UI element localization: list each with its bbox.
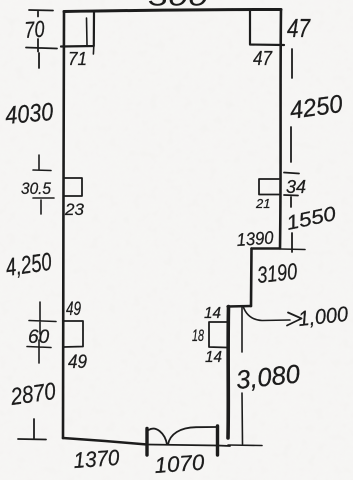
wall jog horizontal at arrow level <box>228 305 252 308</box>
dimension line 3080 (upper segment) <box>241 307 243 352</box>
window 18 on lower right wall <box>209 322 227 348</box>
arrow curve to 1,000 <box>243 306 290 321</box>
right wall (lower thick) <box>226 307 230 439</box>
tick: top of 30.5 <box>33 155 51 171</box>
tick: bottom of 2870 <box>18 419 46 440</box>
svg-text:30.5: 30.5 <box>21 179 51 198</box>
svg-text:60: 60 <box>28 327 50 348</box>
svg-text:3190: 3190 <box>256 258 299 288</box>
svg-text:4030: 4030 <box>4 98 54 130</box>
right wall (upper) <box>280 10 281 249</box>
svg-text:1390: 1390 <box>236 227 274 250</box>
tick: below 34 <box>284 195 298 207</box>
svg-text:18: 18 <box>192 326 204 345</box>
svg-text:49: 49 <box>66 299 81 320</box>
tick: bottom of 3080 <box>228 444 262 447</box>
svg-text:70: 70 <box>24 16 46 43</box>
arrowhead <box>287 313 302 326</box>
wall jog vertical (3190 segment) <box>250 249 253 307</box>
wire: dimension extension of jog line <box>280 248 305 251</box>
tick: bottom of 30.5 <box>33 198 54 214</box>
top dimension text "300" (cut off at top edge) <box>148 0 209 12</box>
window 21 on right wall <box>259 179 279 195</box>
top-left notch (71) <box>61 12 94 47</box>
door right jamb <box>216 426 219 455</box>
bottom wall (left segment) <box>63 438 147 445</box>
svg-text:21: 21 <box>255 196 270 211</box>
tick: bottom of right 4250 <box>284 127 299 174</box>
door left jamb <box>145 429 148 456</box>
window 49 on left wall <box>64 321 84 347</box>
tick: 1550 bottom dash <box>291 233 293 252</box>
door left leaf arc <box>149 429 168 445</box>
door threshold <box>147 445 230 447</box>
svg-text:14: 14 <box>205 349 222 366</box>
svg-text:1370: 1370 <box>73 445 121 473</box>
svg-text:47: 47 <box>287 13 311 43</box>
left wall <box>63 12 64 439</box>
tick: bottom of 60 <box>27 340 51 363</box>
top-right notch (47) <box>250 10 284 46</box>
svg-text:71: 71 <box>68 49 87 69</box>
svg-text:49: 49 <box>68 352 87 373</box>
window 23 on left wall <box>64 178 82 196</box>
tick: bottom of 70 dimension <box>26 39 57 52</box>
svg-text:23: 23 <box>64 200 84 219</box>
door right leaf arc <box>168 427 216 445</box>
svg-text:14: 14 <box>204 305 221 322</box>
svg-text:34: 34 <box>286 177 306 197</box>
tick: top of 70 dimension <box>29 10 53 17</box>
tick: 4030 upper dash <box>38 53 40 68</box>
tick: top of right 4250 <box>291 49 293 78</box>
tick: top of 60 <box>29 302 56 334</box>
svg-text:47: 47 <box>253 48 273 70</box>
top-left notch inner stroke <box>87 18 94 54</box>
svg-text:1070: 1070 <box>154 450 206 478</box>
dimension line 3080 (lower segment) <box>241 393 244 444</box>
top wall <box>64 9 281 11</box>
wall jog horizontal at 1390 level <box>252 247 281 249</box>
